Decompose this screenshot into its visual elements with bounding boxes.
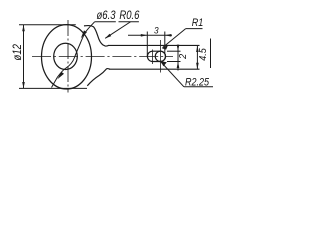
- leader phi6.3 diagonal: [52, 22, 95, 88]
- neck top sweep: [84, 26, 109, 47]
- right border line: [210, 39, 212, 69]
- arrow phi12 top: [22, 25, 25, 32]
- arrow R1: [162, 45, 169, 50]
- leader R2.25 underline: [184, 86, 213, 88]
- svg-text:3: 3: [154, 25, 159, 36]
- bar top edge: [108, 44, 200, 46]
- svg-text:ø12: ø12: [11, 44, 24, 60]
- leader phi6.3 shoulder: [95, 21, 139, 23]
- inner hole (oval): [54, 43, 78, 69]
- arrow dim2 bottom: [177, 62, 180, 69]
- dim 2 ext top: [167, 50, 181, 52]
- neck bottom sweep: [87, 69, 110, 86]
- dim 3 ext right: [164, 32, 166, 54]
- leader R1 shoulder: [186, 28, 203, 30]
- bar bottom edge: [109, 68, 200, 70]
- arrow dim3 left: [141, 34, 148, 37]
- vertical centerline: [67, 20, 69, 93]
- svg-text:4.5: 4.5: [197, 48, 209, 61]
- dim 2 ext bottom: [167, 61, 181, 63]
- leader R2.25 diagonal: [161, 62, 184, 87]
- outer ring boundary (oval): [42, 25, 92, 89]
- svg-text:R1: R1: [192, 17, 204, 29]
- tip circle: [155, 51, 165, 61]
- dim 2 line: [177, 45, 179, 71]
- dim 4.5 line: [196, 46, 198, 70]
- svg-text:2: 2: [178, 53, 190, 59]
- dim 3 line: [128, 34, 172, 36]
- svg-text:ø6.3 R0.6: ø6.3 R0.6: [97, 9, 141, 22]
- arrow dim2 top: [177, 45, 180, 52]
- arrow dim4.5 top: [196, 46, 199, 53]
- leader R0.6: [105, 22, 130, 39]
- arrow R0.6: [105, 34, 111, 39]
- dim phi12 ext top: [19, 24, 76, 26]
- arrow phi6.3 upper: [81, 30, 87, 38]
- arrow phi6.3 lower: [57, 72, 64, 80]
- leader R1 diagonal: [163, 29, 186, 48]
- dim 3 ext left: [146, 32, 148, 57]
- dim phi12 ext bottom: [19, 87, 87, 89]
- arrow phi12 bottom: [22, 82, 25, 89]
- slot stadium: [147, 51, 165, 61]
- arrow R2.25: [161, 61, 167, 66]
- arrow dim3 right: [165, 34, 172, 37]
- dim phi12 line: [23, 25, 25, 89]
- horizontal centerline: [32, 56, 173, 58]
- slot cap centerline: [152, 50, 154, 65]
- arrow dim4.5 bottom: [196, 63, 199, 70]
- svg-text:R2.25: R2.25: [185, 77, 209, 89]
- tip vertical centerline: [159, 40, 161, 73]
